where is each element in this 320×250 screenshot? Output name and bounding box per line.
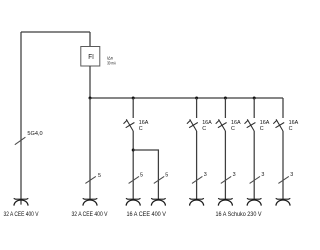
wire bus horizontal [90, 97, 283, 99]
cable marker slash 3 on x=196.6 wire [192, 172, 207, 184]
node junction dot at (133.2,150) [132, 149, 135, 152]
wire top feed line [21, 31, 90, 33]
wire FI box to bus [89, 66, 91, 98]
socket X1 32A CEE at x=21 [14, 198, 29, 205]
svg-text:5G4,0: 5G4,0 [27, 131, 42, 137]
socket X8 Schuko at x=283 [276, 198, 291, 205]
breaker Q3 16A C [216, 119, 241, 132]
wire breaker to socket x=225.4 [224, 131, 226, 199]
svg-text:C: C [202, 126, 206, 132]
node junction dot at x=254.2 [253, 97, 256, 100]
breaker Q4 16A C [245, 119, 270, 132]
cable marker slash 5G4,0 on left wire [15, 131, 43, 145]
socket X4 16A CEE at x=158.4 [151, 198, 166, 205]
socket X6 Schuko at x=225.4 [218, 198, 233, 205]
wire drop to breaker x=196.6 [196, 98, 198, 118]
cable marker slash 5 on x=133.2 wire [129, 173, 143, 184]
socket X7 Schuko at x=254.2 [247, 198, 262, 205]
breaker Q1 16A C [124, 119, 149, 132]
wire bus end drop x=283 [282, 98, 284, 118]
socket X5 Schuko at x=196.6 [189, 198, 204, 205]
node junction dot at x=90 [89, 97, 92, 100]
wire left branch vertical [20, 32, 22, 205]
cable marker slash 3 on x=254.2 wire [250, 172, 265, 184]
svg-text:32 A CEE 400 V: 32 A CEE 400 V [72, 211, 109, 218]
node junction dot at x=196.6 [195, 97, 198, 100]
wire breaker down to junction [132, 131, 134, 199]
svg-text:5: 5 [98, 173, 101, 179]
wire FI drop from top line [89, 32, 91, 47]
svg-text:IΔn: IΔn [107, 55, 113, 61]
wire breaker to socket x=196.6 [196, 131, 198, 199]
svg-text:3: 3 [290, 172, 293, 178]
svg-text:C: C [260, 126, 264, 132]
label IΔn 30mA [107, 55, 116, 66]
svg-text:3: 3 [261, 172, 264, 178]
svg-text:5: 5 [140, 173, 143, 179]
svg-text:16 A Schuko 230 V: 16 A Schuko 230 V [216, 211, 263, 218]
wire drop to breaker x=225.4 [224, 98, 226, 118]
wire drop x=90 below bus [89, 98, 91, 199]
wire breaker to socket x=254.2 [253, 131, 255, 199]
cable marker slash 5 on x=90 wire [85, 173, 101, 184]
breaker Q2 16A C [187, 119, 212, 132]
svg-text:3: 3 [233, 172, 236, 178]
wire breaker to socket x=283 [282, 131, 284, 199]
cable marker slash 3 on x=225.4 wire [221, 172, 236, 184]
svg-text:C: C [289, 126, 293, 132]
svg-text:5: 5 [165, 173, 168, 179]
svg-text:C: C [139, 126, 143, 132]
breaker Q5 16A C [273, 119, 298, 132]
node junction dot at x=225.4 [224, 97, 227, 100]
svg-text:FI: FI [88, 54, 94, 61]
wire drop to breaker x=133.2 [132, 98, 134, 118]
svg-text:3: 3 [204, 172, 207, 178]
node junction dot at x=133.2 [132, 97, 135, 100]
svg-text:C: C [231, 126, 235, 132]
cable marker slash 3 on x=283 wire [278, 172, 293, 184]
socket X3 16A CEE at x=133.2 [126, 198, 141, 205]
svg-text:16 A CEE 400 V: 16 A CEE 400 V [126, 211, 166, 218]
wire branch horizontal to x=158.4 [133, 150, 158, 199]
RCD FI box [81, 47, 100, 67]
cable marker slash 5 on x=158.4 wire [154, 173, 168, 184]
wire drop to breaker x=254.2 [253, 98, 255, 118]
svg-text:32 A CEE 400 V: 32 A CEE 400 V [4, 211, 40, 218]
socket X2 32A CEE at x=90 [83, 198, 98, 205]
svg-text:30 mA: 30 mA [107, 61, 116, 67]
